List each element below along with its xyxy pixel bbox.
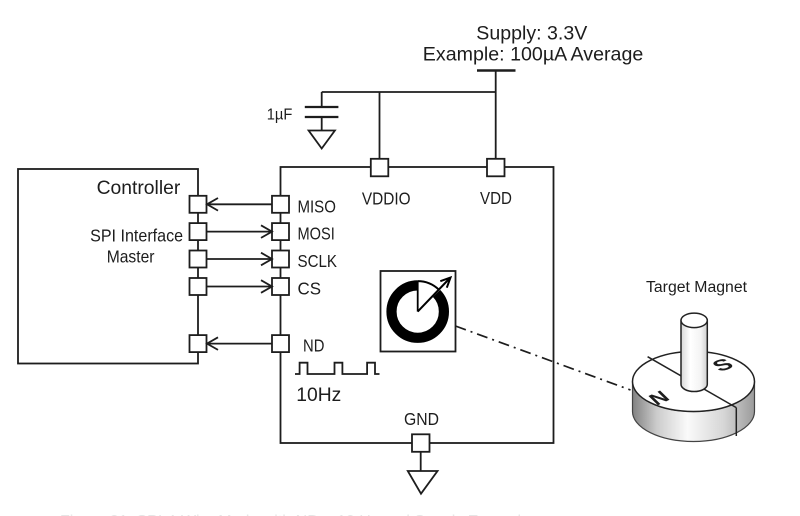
magnet pole split line [648,357,737,408]
ground (GND pin) [408,471,438,494]
svg-text:ND: ND [303,336,324,356]
sensor ring [392,275,445,338]
IC U1 box [281,167,554,443]
svg-text:CS: CS [298,279,322,299]
svg-text:MISO: MISO [298,196,336,216]
controller pin ND [190,335,207,352]
wire GND [420,452,422,471]
sensor angle arc [418,281,439,290]
cropped caption [60,513,530,516]
svg-text:Supply: 3.3V: Supply: 3.3V [476,23,587,45]
angle sensor symbol [381,271,456,352]
svg-text:Master: Master [107,247,155,267]
svg-text:SCLK: SCLK [298,251,338,271]
wire CS [207,280,272,293]
svg-text:1µF: 1µF [267,107,293,124]
svg-text:Controller: Controller [97,178,181,199]
svg-text:GND: GND [404,409,439,429]
svg-text:Target Magnet: Target Magnet [646,279,748,296]
wire ND [207,337,272,350]
controller pin CS [190,278,207,295]
svg-text:VDD: VDD [480,188,512,208]
supply terminal [477,69,516,71]
target magnet [633,279,755,442]
wire supply to VDD [495,71,497,160]
IC pin MOSI [272,223,335,244]
wire supply rail [322,91,496,93]
sensor zero reference line [417,281,419,312]
magnet disc side [633,382,755,442]
IC pin SCLK [272,251,337,272]
ground (capacitor) [309,131,335,149]
capacitor C1 1uF [267,92,339,131]
controller pin MOSI [190,223,207,240]
magnet shaft [681,313,707,391]
wire MOSI [207,225,272,238]
controller pin MISO [190,196,207,213]
wire SCLK [207,253,272,266]
svg-text:SPI Interface: SPI Interface [90,226,183,246]
controller box [18,169,198,364]
svg-text:MOSI: MOSI [298,224,335,244]
IC pin VDDIO [362,159,411,209]
svg-text:Example: 100µA Average: Example: 100µA Average [423,44,644,66]
svg-text:10Hz: 10Hz [296,384,341,406]
IC pin ND [272,335,324,355]
svg-text:VDDIO: VDDIO [362,188,411,208]
magnet side seam line [735,408,737,436]
magnet disc top [633,352,755,412]
wire MISO [207,198,272,211]
sense axis dash-dot line [456,326,631,390]
controller pin SCLK [190,251,207,268]
supply label [423,23,644,66]
IC pin VDD [480,159,512,208]
sensor rotation arrow [418,278,451,312]
IC pin GND [404,409,439,452]
wire rail to VDDIO [379,92,381,159]
IC pin MISO [272,196,336,217]
sensor outline box [381,271,456,352]
waveform 10Hz [295,363,380,406]
IC pin CS [272,278,321,299]
